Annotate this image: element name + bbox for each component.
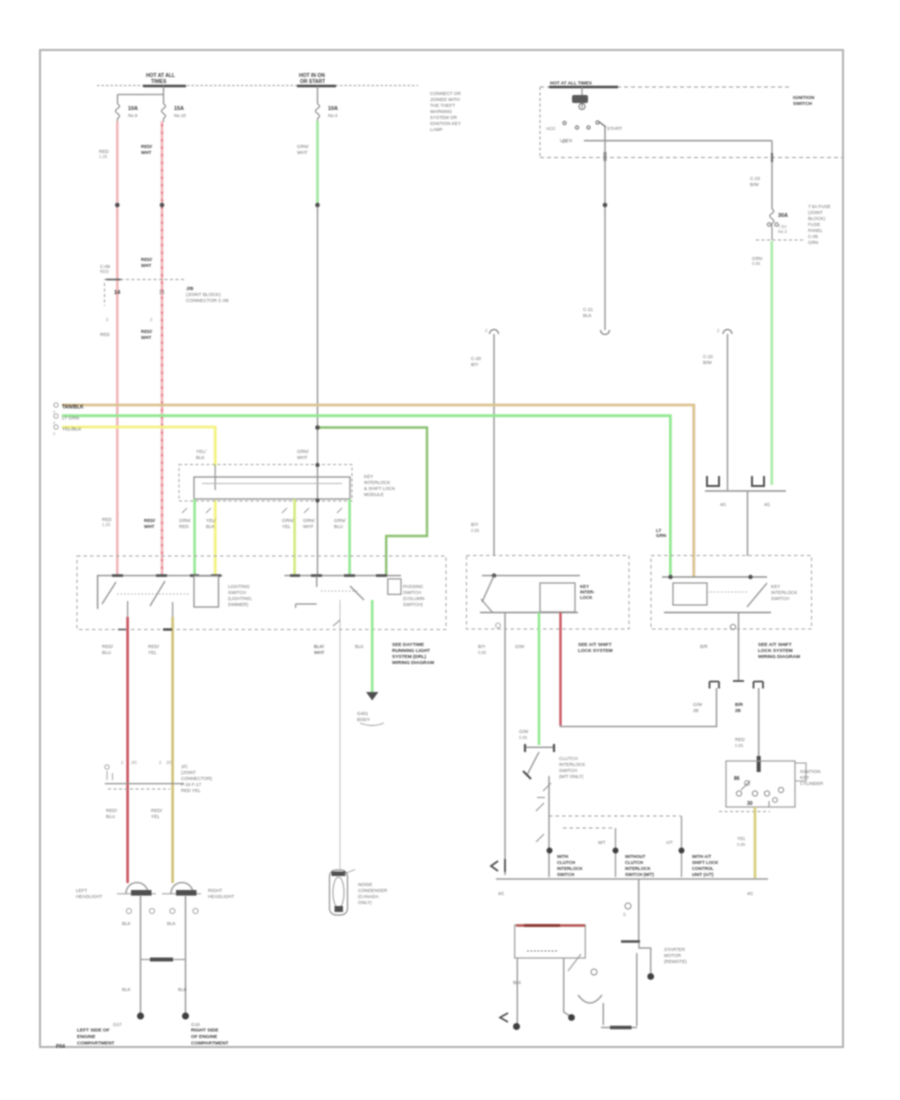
svg-text:10A: 10A [328,106,338,112]
svg-text:START: START [607,126,622,132]
svg-text:ACC: ACC [546,126,556,131]
svg-text:G/W: G/W [693,702,703,707]
svg-text:IGNITION: IGNITION [800,769,820,774]
svg-text:B/Y: B/Y [478,644,485,649]
svg-text:THE THEFT: THE THEFT [430,103,455,108]
svg-text:RED: RED [735,737,745,742]
svg-text:BLK: BLK [122,987,132,992]
svg-text:RED/: RED/ [106,808,118,813]
dashed jumpers [549,815,681,817]
interlock unit inner contact line [202,483,342,485]
wire x505 down [504,613,506,875]
chartreuse stub [293,499,296,576]
svg-text:CONNECT OR: CONNECT OR [430,91,461,96]
svg-text:CONDENSER: CONDENSER [358,888,388,893]
svg-text:KEY: KEY [800,775,809,780]
ground wires [140,896,142,1014]
svg-text:RUNNING LIGHT: RUNNING LIGHT [392,648,430,654]
svg-text:OF ENGINE: OF ENGINE [191,1034,218,1040]
wire down from right box [738,613,740,682]
left sub-box 1 lighting switch [98,576,223,609]
red wire down [126,617,129,883]
svg-text:LOCK SYSTEM: LOCK SYSTEM [758,648,793,654]
end bracket [491,861,498,871]
svg-text:J/C: J/C [166,760,172,765]
pin at ST crossing [604,152,607,161]
pin mark at dashed-box crossing (RED wire) [118,629,126,631]
svg-text:DIMMER): DIMMER) [228,602,249,607]
bottom bus [496,878,768,880]
svg-text:YEL: YEL [148,650,157,655]
svg-text:PANEL: PANEL [808,228,823,233]
svg-text:SHIFT LOCK: SHIFT LOCK [692,860,719,865]
dark bus text on box top [549,86,618,89]
big dashed box right [651,556,812,630]
svg-text:YEL/BLK: YEL/BLK [62,427,82,433]
tan wire horizontal [62,405,694,577]
hot-at-all-times bus (dashed) [97,85,418,87]
svg-text:C-05: C-05 [808,234,818,239]
svg-text:SEE DAYTIME: SEE DAYTIME [392,642,425,648]
svg-text:(JOINT BLOCK): (JOINT BLOCK) [186,292,221,298]
svg-text:No.3: No.3 [778,229,788,234]
svg-text:MOTOR: MOTOR [664,953,682,958]
svg-text:4G: 4G [747,891,754,896]
svg-text:No.9: No.9 [128,113,138,118]
svg-text:RED/: RED/ [141,257,153,262]
svg-text:WHT: WHT [141,150,152,155]
svg-text:M/T: M/T [598,840,606,845]
pin circles [126,908,131,913]
yellow wire horizontal [62,427,215,466]
svg-text:BODY: BODY [357,717,370,722]
svg-text:(REMOTE): (REMOTE) [664,959,687,964]
right branch down [771,141,773,209]
svg-text:WHT: WHT [303,524,314,529]
svg-text:SWITCH: SWITCH [559,768,577,773]
ground dots [137,1013,144,1020]
svg-text:SWITCH: SWITCH [793,101,812,107]
svg-text:STARTER: STARTER [664,947,686,952]
motor arc [578,995,602,1003]
svg-text:G/W: G/W [515,644,525,649]
svg-text:WARNING: WARNING [430,109,452,114]
svg-text:OR START: OR START [300,79,325,85]
right headlight [171,883,193,894]
svg-text:HEADLIGHT: HEADLIGHT [76,894,102,899]
green + red wires down from middle box [538,613,541,746]
relay terminal circles extra [745,781,750,786]
svg-text:SYSTEM (DRL): SYSTEM (DRL) [392,654,427,660]
svg-text:YEL: YEL [737,836,746,841]
svg-text:COMPARTMENT: COMPARTMENT [77,1041,115,1047]
svg-text:WITH: WITH [557,854,568,859]
thin wire to condenser [339,600,341,869]
svg-text:WHT: WHT [297,150,308,155]
wire W1 pink RED [116,121,119,576]
key symbol [581,87,583,108]
svg-text:0.85: 0.85 [478,650,487,655]
svg-text:RED/: RED/ [102,644,114,649]
svg-text:GRN: GRN [808,240,818,245]
svg-text:JOINED WITH: JOINED WITH [430,97,460,102]
svg-text:WHT: WHT [141,335,152,340]
svg-text:86: 86 [734,776,740,782]
svg-text:COMPARTMENT: COMPARTMENT [191,1041,229,1047]
svg-text:J/C: J/C [181,764,189,769]
ST wire down [604,127,606,141]
svg-text:GRN: GRN [656,533,667,538]
svg-text:YEL/: YEL/ [196,449,207,454]
svg-text:WHT: WHT [144,524,155,529]
clutch switch bar [525,746,554,748]
ST wire to connector [604,141,606,330]
wire W3 green top seg [316,121,319,206]
svg-text:INTERLOCK: INTERLOCK [625,866,651,871]
svg-text:KEY: KEY [580,584,589,589]
IG2 line right [584,140,772,142]
middle box internals [482,575,580,577]
svg-text:(CANADA: (CANADA [358,894,380,899]
svg-text:KEY: KEY [364,474,373,479]
svg-text:J/B: J/B [186,286,194,292]
green ground wire from sub-box2 [371,600,374,693]
fuse feed bracket [118,86,164,104]
fuse F1 [116,104,120,122]
ground triangle [366,692,378,701]
pin slashes under rect [182,508,342,513]
svg-text:FUSE: FUSE [808,222,820,227]
svg-text:CONNECTOR C-08: CONNECTOR C-08 [186,298,229,304]
green stub right [348,499,351,576]
pin at box bottom crossing [771,153,773,162]
svg-text:BLK: BLK [206,524,216,529]
fuse F2 [162,104,166,122]
svg-text:(JOINT: (JOINT [181,770,196,775]
svg-text:0.85: 0.85 [519,735,528,740]
right box internals [662,576,767,578]
svg-text:RED/: RED/ [148,644,160,649]
svg-text:ENGINE: ENGINE [77,1034,96,1040]
svg-text:SWITCH: SWITCH [771,596,789,601]
svg-text:16: 16 [159,290,165,296]
svg-text:LEFT: LEFT [76,888,87,893]
svg-text:B/Y: B/Y [471,362,478,367]
svg-text:UNIT (A/T): UNIT (A/T) [692,872,714,877]
svg-text:SEE A/T SHIFT: SEE A/T SHIFT [758,642,792,648]
svg-text:CYLINDER: CYLINDER [800,781,824,786]
yellow wire down to bus [754,807,757,878]
svg-text:1.25: 1.25 [99,154,108,159]
solenoid path [639,943,651,973]
svg-text:RED: RED [100,269,109,274]
svg-text:(LIGHTING,: (LIGHTING, [228,596,253,601]
svg-text:KEY: KEY [771,584,780,589]
svg-text:B/R: B/R [735,702,744,707]
yellow wire contact stub inside interlock unit [214,477,216,490]
motor to bottom bar [602,1003,604,1025]
svg-text:INTERLOCK: INTERLOCK [771,590,798,595]
svg-text:B/Y: B/Y [471,522,478,527]
svg-text:RED/: RED/ [141,329,153,334]
svg-text:PASSING: PASSING [403,584,424,589]
svg-text:G18: G18 [191,1022,200,1027]
svg-text:BLK: BLK [355,644,365,649]
svg-text:7.5A FUSE: 7.5A FUSE [808,204,831,209]
svg-text:(M/T ONLY): (M/T ONLY) [559,774,584,779]
starter box dark red core segment [524,924,560,927]
left pin to ground [516,958,518,1024]
big dashed box middle [467,556,630,630]
svg-text:LEFT SIDE OF: LEFT SIDE OF [77,1028,110,1034]
svg-text:GRN/: GRN/ [334,518,346,523]
pin circle under key interlock switch [730,624,735,629]
svg-text:SWITCH: SWITCH [228,590,246,595]
svg-text:WIRING DIAGRAM: WIRING DIAGRAM [392,660,434,666]
svg-text:TIMES: TIMES [151,79,167,85]
svg-text:G401: G401 [357,711,369,716]
green wire right side [770,241,773,485]
svg-text:GRN/: GRN/ [297,449,309,454]
bus dark segment 1 [143,85,186,87]
svg-text:RED/: RED/ [144,518,156,523]
key interlock dashed box [179,465,352,502]
svg-text:WHT: WHT [314,650,325,655]
svg-text:ST: ST [562,139,568,144]
svg-text:A/T: A/T [666,840,673,845]
bus dark segment 2 [297,85,336,87]
tie bar [141,959,186,961]
svg-text:MODULE: MODULE [364,492,384,497]
wire from bus to starter S [638,879,640,941]
svg-text:GRN/: GRN/ [297,144,309,149]
wire x549 with ticks [548,776,550,877]
svg-text:F-16 F-17: F-16 F-17 [181,782,202,787]
svg-text:LT GRN: LT GRN [62,416,80,422]
svg-text:LOCK SYSTEM: LOCK SYSTEM [578,648,613,654]
svg-text:0.85: 0.85 [735,743,744,748]
svg-text:SWITCH (M/T): SWITCH (M/T) [625,872,655,877]
svg-text:No.10: No.10 [174,113,186,118]
svg-text:0.85: 0.85 [752,261,761,266]
svg-text:C-21: C-21 [583,307,593,312]
svg-text:RIGHT: RIGHT [208,888,222,893]
dots on x317 at box [315,463,319,467]
svg-text:BLK: BLK [167,921,177,926]
svg-text:LIGHTING: LIGHTING [228,584,250,589]
svg-text:BLU: BLU [102,650,111,655]
svg-text:BLK: BLK [513,980,521,985]
svg-text:4G: 4G [764,502,771,507]
svg-text:B/W: B/W [703,360,712,365]
svg-text:RED/: RED/ [141,144,153,149]
olive wire down [171,617,174,883]
svg-text:GRN/: GRN/ [282,518,294,523]
splice dots y205 [115,203,120,208]
svg-text:HEADLIGHT: HEADLIGHT [208,894,234,899]
yellow wire lower segment [214,500,217,576]
fuse F3 [316,104,320,122]
svg-text:WITHOUT: WITHOUT [625,854,646,859]
yellow stub through box [214,465,216,477]
interlock relay box [726,761,795,807]
connector hooks [710,682,720,689]
wire x494 from connector down [490,330,499,335]
svg-text:CLUTCH: CLUTCH [625,860,643,865]
svg-text:INTERLOCK: INTERLOCK [557,866,583,871]
svg-text:BLU: BLU [106,814,115,819]
svg-text:P04: P04 [56,1044,65,1050]
svg-text:SWITCH): SWITCH) [403,602,423,607]
svg-text:BLK: BLK [178,987,188,992]
svg-text:IGNITION KEY: IGNITION KEY [430,121,461,126]
svg-text:ONLY): ONLY) [358,900,372,905]
S terminal bar [621,940,640,943]
svg-text:TAN/BLK: TAN/BLK [62,405,84,411]
svg-text:BLK: BLK [583,313,593,318]
green wire horizontal [62,416,670,577]
svg-text:WITH A/T: WITH A/T [692,854,712,859]
svg-text:YEL: YEL [282,524,291,529]
svg-text:SWITCH: SWITCH [403,590,421,595]
svg-text:CLUTCH: CLUTCH [559,756,578,761]
svg-text:INTERLOCK: INTERLOCK [559,762,586,767]
svg-text:NOISE: NOISE [358,882,372,887]
svg-text:LOCK: LOCK [580,595,593,600]
svg-text:BLU: BLU [334,524,343,529]
svg-text:SWITCH: SWITCH [557,872,574,877]
switch arm [599,122,607,128]
svg-text:WHT: WHT [297,455,308,460]
svg-text:G17: G17 [113,1022,122,1027]
wire W2 pink/red dashed RED-WHT [161,121,164,576]
svg-text:J/C: J/C [131,760,137,765]
wire W3 gray main [317,205,319,576]
svg-text:WHT: WHT [141,263,152,268]
svg-text:14: 14 [114,290,121,296]
svg-text:10A: 10A [128,106,138,112]
svg-text:0.85: 0.85 [471,528,480,533]
svg-text:RED: RED [179,524,189,529]
svg-text:RIGHT SIDE: RIGHT SIDE [191,1028,219,1034]
svg-text:CONTROL: CONTROL [692,866,714,871]
svg-text:CONNECTOR): CONNECTOR) [181,776,213,781]
svg-text:C-20: C-20 [471,356,481,361]
red pin below [127,601,129,618]
svg-text:4G: 4G [720,502,727,507]
left sub-box 2 turn/hazard [284,575,401,577]
junction block J/B dashed [104,279,186,281]
mid pin [564,958,570,1016]
svg-text:0.85: 0.85 [737,842,746,847]
inner solid rect [194,477,350,499]
dashed jb bottom [756,239,805,241]
condenser [330,870,348,915]
svg-text:BLOCK): BLOCK) [808,216,826,221]
svg-text:RED YEL: RED YEL [181,788,201,793]
svg-text:30: 30 [747,801,753,807]
svg-text:INTER-: INTER- [580,590,595,595]
svg-text:30A: 30A [778,213,788,219]
pin mark at dashed-box crossing (YEL wire) [163,628,172,630]
starter box [515,925,586,958]
svg-text:& SHIFT LOCK: & SHIFT LOCK [364,486,396,491]
dark green branch [318,428,427,577]
svg-text:INTERLOCK: INTERLOCK [364,480,391,485]
svg-text:GRN/: GRN/ [179,518,191,523]
olive pin below [172,602,174,618]
svg-text:RED: RED [100,332,110,337]
svg-text:(COLUMN: (COLUMN [403,596,424,601]
blade [527,752,539,775]
big dashed box left [77,556,446,630]
connector half circle end [601,330,610,335]
svg-text:No.4: No.4 [328,113,338,118]
svg-text:B/W: B/W [750,182,759,187]
fuse F3 stub [317,86,319,104]
svg-text:S: S [623,912,626,917]
svg-text:(JOINT: (JOINT [808,210,823,215]
svg-text:RED/: RED/ [151,808,163,813]
svg-text:SYSTEM OR: SYSTEM OR [430,115,458,120]
svg-text:WIRING DIAGRAM: WIRING DIAGRAM [758,654,800,660]
connector hooks above bar [707,476,719,486]
connector bar [705,490,786,492]
svg-text:SEE A/T SHIFT: SEE A/T SHIFT [578,642,612,648]
fuse 7.5A [770,209,774,228]
svg-text:2B: 2B [735,708,742,713]
svg-text:2B: 2B [693,708,699,713]
ignition switch dashed box [540,86,790,88]
svg-text:BLK: BLK [122,921,132,926]
svg-text:HOT AT ALL TIMES: HOT AT ALL TIMES [550,81,592,86]
wire from bar down to right switch [747,491,749,556]
wire to relay [758,688,760,760]
svg-text:4G: 4G [498,891,505,896]
svg-text:C-23: C-23 [750,176,760,181]
svg-text:GRN/: GRN/ [303,518,315,523]
svg-text:C-22: C-22 [703,354,713,359]
svg-text:CLUTCH: CLUTCH [557,860,575,865]
red corner wire [561,688,717,727]
svg-text:15A: 15A [174,106,184,112]
svg-text:1.25: 1.25 [102,522,111,527]
svg-text:G/W: G/W [519,729,529,734]
svg-text:BLK/: BLK/ [314,644,325,649]
svg-text:B/R: B/R [700,644,708,649]
svg-text:YEL: YEL [151,814,160,819]
svg-text:IGNITION: IGNITION [793,95,815,101]
left headlight [126,883,148,894]
svg-text:LAMP: LAMP [430,127,443,132]
svg-text:BLK: BLK [196,455,206,460]
green stub left [193,499,196,576]
inline connector wire x727 [723,330,732,335]
svg-text:YEL/: YEL/ [206,518,217,523]
